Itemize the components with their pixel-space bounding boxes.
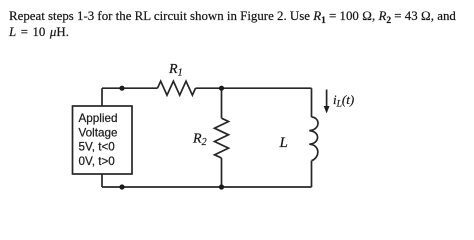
resistor R2 <box>215 118 229 158</box>
wire: left branch, source box down to bottom wire <box>101 174 103 187</box>
node B: junction R2 bottom <box>219 184 224 189</box>
wire: bottom, node B to inductor branch <box>222 186 312 188</box>
wire: top, R1 to node A <box>196 87 222 89</box>
resistor R1 <box>158 81 196 95</box>
node dot bottom left <box>119 184 124 189</box>
wire: left branch, top wire down to source box <box>101 88 103 106</box>
wire: top, node A to inductor branch <box>222 87 312 89</box>
voltage source V1 (box) <box>73 106 133 174</box>
wire: node A down to R2 <box>221 88 223 118</box>
inductor L coil <box>309 117 318 161</box>
svg-text:R2: R2 <box>192 132 207 149</box>
svg-text:R1: R1 <box>168 62 183 79</box>
wire: inductor down to bottom wire <box>311 161 313 187</box>
wire: top, source to R1 <box>102 87 158 89</box>
wire: right branch, top wire down to inductor <box>311 88 313 117</box>
current arrow shaft iL(t) <box>326 90 328 109</box>
node dot top left <box>119 86 124 91</box>
wire: R2 down to node B <box>221 158 223 187</box>
svg-text:iL(t): iL(t) <box>333 92 354 110</box>
svg-text:Applied: Applied <box>79 112 118 125</box>
node A: junction R1/R2 top <box>219 86 224 91</box>
wire: bottom, source to node B <box>102 186 222 188</box>
svg-text:5V, t<0: 5V, t<0 <box>79 141 116 154</box>
svg-text:0V, t>0: 0V, t>0 <box>79 155 116 168</box>
arrowhead of iL(t) <box>324 106 330 114</box>
svg-text:Voltage: Voltage <box>79 127 118 140</box>
svg-text:L: L <box>279 135 288 151</box>
